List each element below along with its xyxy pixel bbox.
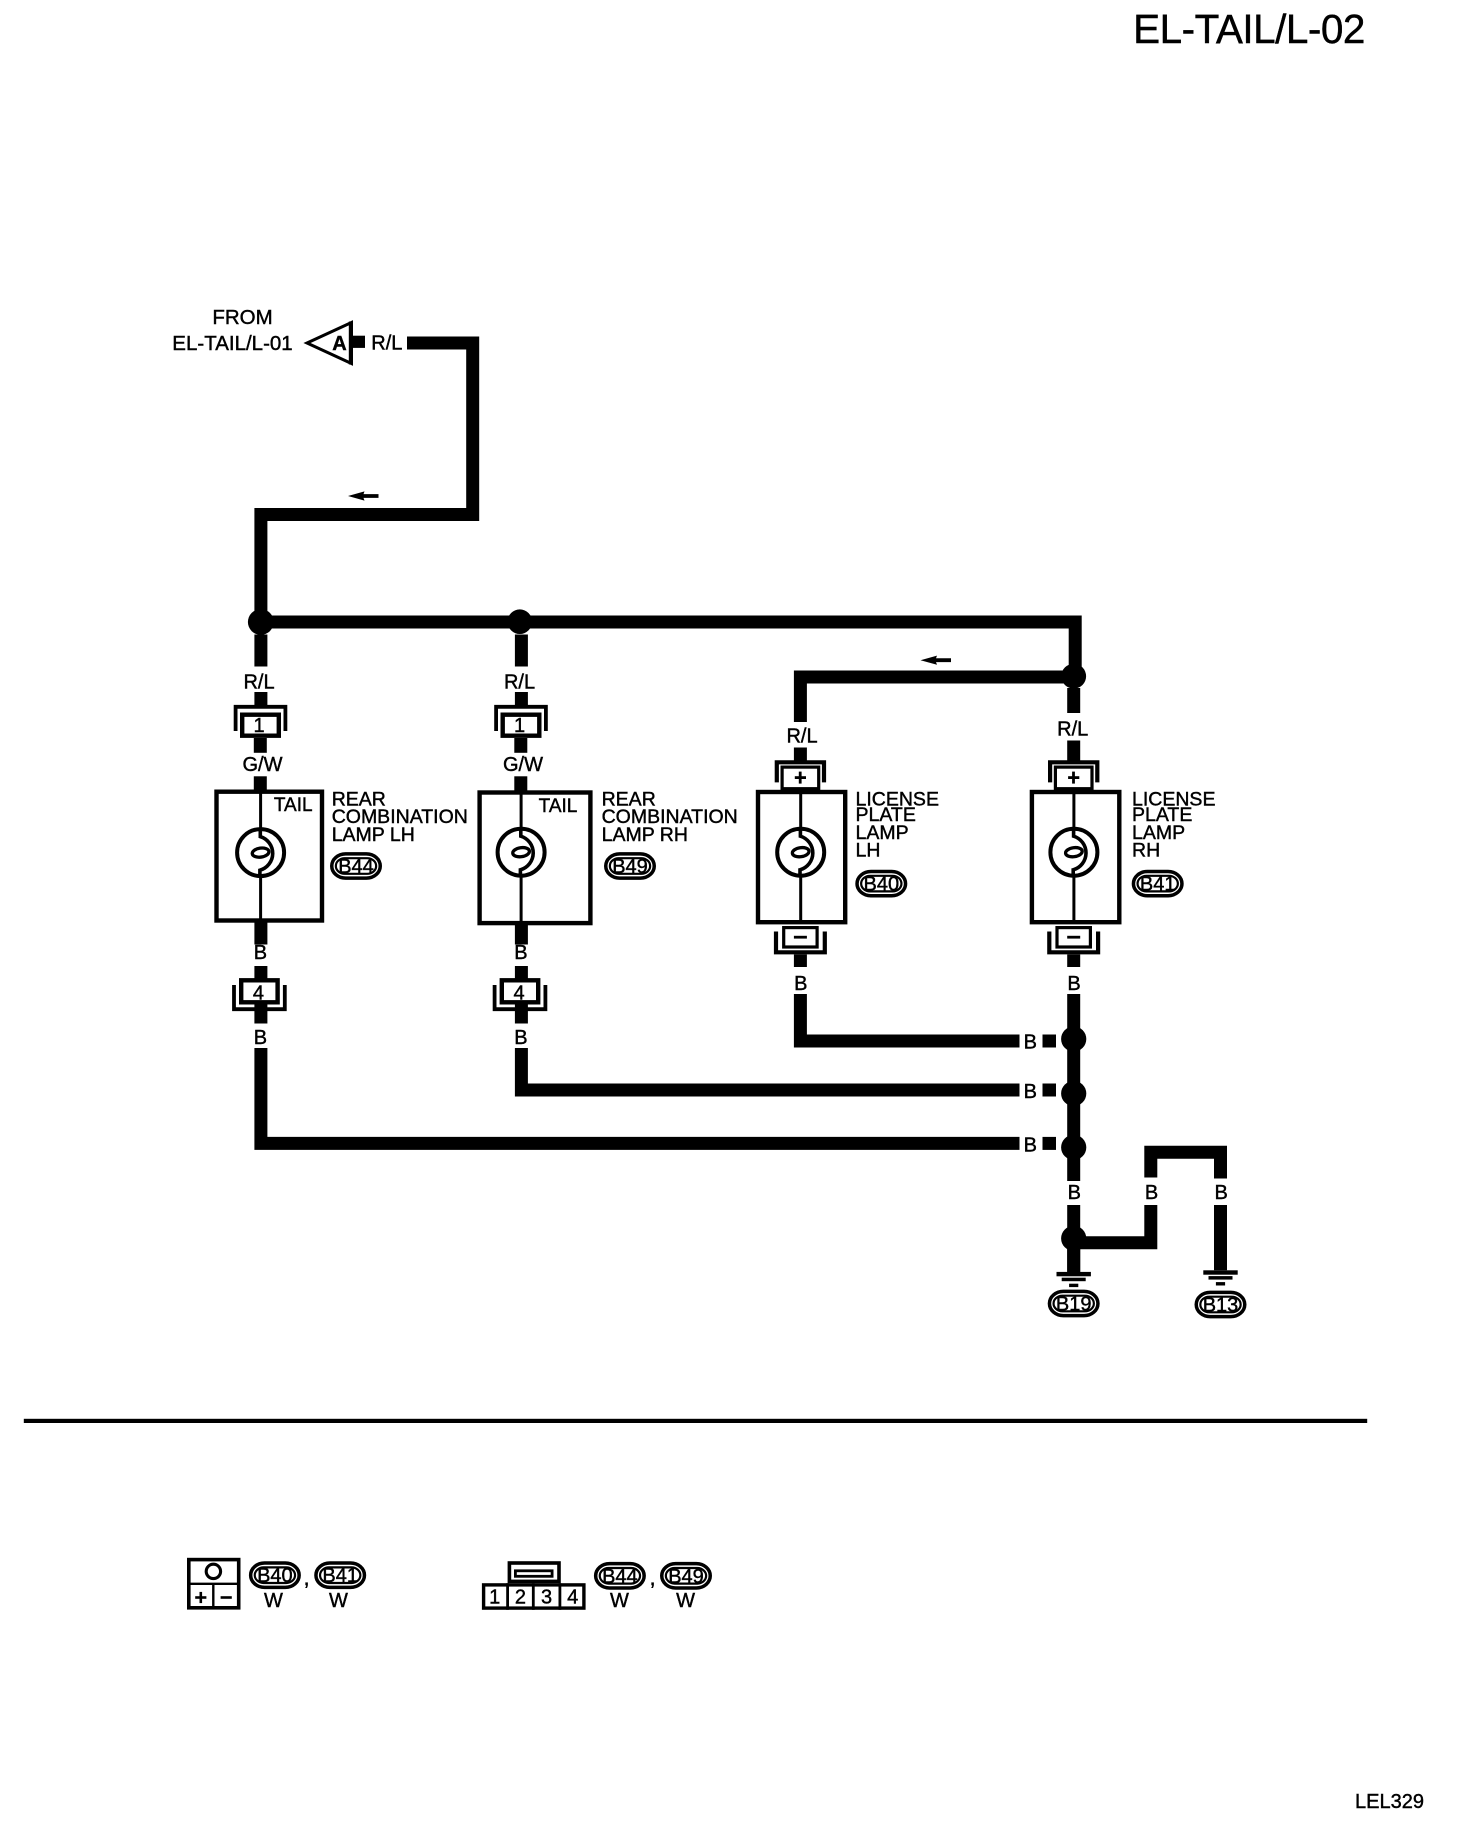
- legend ref B49: [662, 1564, 711, 1588]
- svg-text:W: W: [610, 1590, 629, 1612]
- label R/L (license RH): [1057, 719, 1088, 741]
- svg-text:B13: B13: [1203, 1295, 1239, 1317]
- legend ref B40: [251, 1563, 300, 1587]
- svg-text:B: B: [1024, 1032, 1037, 1054]
- wire stub at triangle A: [353, 336, 365, 348]
- figure code LEL329: [1355, 1791, 1424, 1813]
- bulb (license plate lamp LH): [777, 829, 824, 876]
- wire connector to G/W label (RH tail): [514, 738, 527, 753]
- legend comma 1: [303, 1565, 309, 1590]
- svg-text:TAIL: TAIL: [539, 796, 578, 817]
- wire RH tail ground run: [521, 1048, 1019, 1090]
- legend label W (B41): [329, 1590, 348, 1612]
- label LICENSE PLATE LAMP LH: [856, 788, 939, 861]
- svg-text:R/L: R/L: [371, 333, 402, 355]
- svg-text:B: B: [1024, 1081, 1037, 1103]
- junction node ground bus 4: [1061, 1226, 1086, 1251]
- connector ref B49: [606, 854, 655, 878]
- arrow on license feed wire: [921, 656, 952, 665]
- svg-text:RH: RH: [1132, 839, 1160, 861]
- label B (bridge left): [1145, 1182, 1158, 1204]
- wire lamp to B label (RH tail): [515, 923, 528, 945]
- wire connector 4 down (RH tail): [515, 1005, 528, 1024]
- svg-text:EL-TAIL/L-02: EL-TAIL/L-02: [1133, 6, 1365, 52]
- svg-text:R/L: R/L: [1057, 719, 1088, 741]
- wire B label to connector 4 (RH tail): [515, 966, 528, 980]
- label B (ground bus): [1068, 1182, 1081, 1204]
- svg-text:TAIL: TAIL: [274, 795, 313, 816]
- label B (license LH): [794, 973, 807, 995]
- wire node to R/L label (RH tail): [515, 635, 528, 667]
- wire node to B19 ground: [1067, 1238, 1080, 1272]
- wire R/L to connector + (license LH): [794, 748, 807, 761]
- legend label W (B44): [610, 1590, 629, 1612]
- junction node bus / RH tail feed: [508, 609, 533, 634]
- legend connector face (rear combination lamps): [484, 1563, 584, 1610]
- wire license RH to node: [1067, 994, 1080, 1039]
- svg-text:B: B: [254, 942, 267, 964]
- svg-text:G/W: G/W: [243, 754, 283, 776]
- label B (RH tail lower): [514, 1027, 527, 1049]
- wire bridge over to B13: [1151, 1152, 1221, 1178]
- connector B49 pin 1: [496, 707, 546, 737]
- wire G/W to lamp (RH tail): [514, 776, 527, 792]
- legend ref B44: [596, 1564, 645, 1588]
- label B (LH tail lower): [254, 1027, 267, 1049]
- label G/W (LH tail): [243, 754, 283, 776]
- label LICENSE PLATE LAMP RH: [1132, 788, 1215, 861]
- label B (bridge right): [1215, 1182, 1228, 1204]
- wire lamp to B label (LH tail): [254, 921, 267, 945]
- svg-text:LH: LH: [856, 839, 881, 861]
- svg-text:4: 4: [567, 1587, 578, 1609]
- junction node bus / LH tail feed: [248, 609, 274, 635]
- label B (LH tail upper): [254, 942, 267, 964]
- svg-text:LEL329: LEL329: [1355, 1791, 1424, 1813]
- svg-text:B49: B49: [612, 856, 648, 878]
- rear combination lamp LH box: [217, 790, 323, 923]
- label FROM EL-TAIL/L-01: [172, 306, 292, 355]
- wire R/L feed from A: [261, 343, 473, 624]
- svg-text:B19: B19: [1056, 1294, 1092, 1316]
- ground symbol B19: [1057, 1272, 1091, 1287]
- svg-text:,: ,: [649, 1565, 655, 1590]
- svg-text:,: ,: [303, 1565, 309, 1590]
- svg-text:R/L: R/L: [504, 672, 535, 694]
- wire segment square (LH tail): [1043, 1137, 1057, 1150]
- connector B44 pin 1: [236, 707, 286, 737]
- label B (license LH at junction): [1024, 1032, 1037, 1054]
- svg-text:B: B: [1068, 1182, 1081, 1204]
- connector B44 pin 4: [234, 980, 285, 1009]
- legend ref B41: [316, 1563, 365, 1587]
- wire ground bus verticals: [1067, 1039, 1080, 1272]
- label REAR COMBINATION LAMP LH: [332, 788, 468, 846]
- svg-text:B: B: [254, 1027, 267, 1049]
- svg-text:W: W: [264, 1590, 283, 1612]
- sheet title EL-TAIL/L-02: [1133, 6, 1365, 52]
- wire license lamp feed: [800, 677, 1067, 722]
- svg-text:B: B: [1067, 973, 1080, 995]
- wire LH tail ground run: [261, 1048, 1020, 1143]
- svg-text:1: 1: [514, 715, 525, 737]
- svg-text:B40: B40: [257, 1565, 293, 1587]
- ground ref B13: [1196, 1292, 1245, 1316]
- wire bridge right leg to ground: [1214, 1205, 1227, 1270]
- bulb (rear combination lamp LH): [237, 829, 284, 876]
- wire license LH ground run: [800, 994, 1019, 1041]
- svg-text:B: B: [1215, 1182, 1228, 1204]
- label R/L (feed from A): [371, 333, 402, 355]
- wire lamp to B label (license LH): [794, 955, 807, 968]
- label R/L (LH tail): [243, 672, 274, 694]
- label B (RH tail at junction): [1024, 1081, 1037, 1103]
- wire node to R/L label (LH tail): [254, 635, 267, 667]
- connector B49 pin 4: [495, 980, 546, 1009]
- bulb (license plate lamp RH): [1050, 829, 1097, 876]
- svg-text:3: 3: [541, 1587, 552, 1609]
- wire R/L to connector 1 (RH tail): [515, 692, 528, 706]
- label B (LH tail at junction): [1024, 1134, 1037, 1156]
- connector - (license LH): [776, 928, 825, 953]
- svg-text:EL-TAIL/L-01: EL-TAIL/L-01: [172, 332, 292, 355]
- bus wire R/L: [261, 622, 1075, 676]
- legend connector face (license plate lamps): [188, 1560, 240, 1609]
- svg-text:B40: B40: [864, 874, 900, 896]
- svg-text:4: 4: [253, 983, 264, 1005]
- junction node ground bus 1: [1061, 1026, 1086, 1051]
- svg-text:B: B: [514, 942, 527, 964]
- svg-text:R/L: R/L: [786, 726, 817, 748]
- svg-text:R/L: R/L: [243, 672, 274, 694]
- junction node ground bus 2: [1061, 1081, 1086, 1106]
- label B (RH tail upper): [514, 942, 527, 964]
- svg-text:2: 2: [515, 1587, 526, 1609]
- label B (license RH): [1067, 973, 1080, 995]
- svg-text:G/W: G/W: [503, 754, 543, 776]
- license plate lamp LH box: [758, 790, 845, 924]
- svg-text:B: B: [1145, 1182, 1158, 1204]
- junction node ground bus 3: [1061, 1135, 1086, 1160]
- svg-text:1: 1: [489, 1587, 500, 1609]
- svg-text:W: W: [329, 1590, 348, 1612]
- svg-text:B: B: [794, 973, 807, 995]
- legend label W (B40): [264, 1590, 283, 1612]
- license plate lamp RH box: [1032, 790, 1119, 924]
- wire G/W to lamp (LH tail): [254, 776, 267, 792]
- wire B label to connector 4 (LH tail): [254, 966, 267, 980]
- svg-text:A: A: [332, 333, 346, 355]
- connector + (license LH): [777, 762, 824, 788]
- label R/L (license LH): [786, 726, 817, 748]
- legend label W (B49): [676, 1590, 695, 1612]
- svg-text:LAMP RH: LAMP RH: [602, 824, 688, 846]
- bulb (rear combination lamp RH): [498, 829, 545, 876]
- rear combination lamp RH box: [480, 790, 591, 925]
- svg-text:B41: B41: [322, 1565, 358, 1587]
- svg-text:B41: B41: [1140, 874, 1176, 896]
- connector ref B41: [1133, 871, 1182, 895]
- wire segment square (license LH): [1043, 1035, 1057, 1048]
- arrow on feed wire: [348, 491, 379, 500]
- svg-text:FROM: FROM: [212, 306, 272, 329]
- legend comma 2: [649, 1565, 655, 1590]
- svg-text:W: W: [676, 1590, 695, 1612]
- wire connector 4 down (LH tail): [254, 1005, 267, 1024]
- svg-text:4: 4: [513, 983, 524, 1005]
- ground symbol B13: [1203, 1270, 1237, 1285]
- svg-text:B49: B49: [668, 1566, 704, 1588]
- connector ref B44: [332, 854, 381, 878]
- label REAR COMBINATION LAMP RH: [602, 788, 738, 846]
- wire lamp to B label (license RH): [1067, 955, 1080, 968]
- svg-text:B44: B44: [602, 1566, 638, 1588]
- wire connector to G/W label (LH tail): [254, 738, 267, 753]
- svg-text:B: B: [514, 1027, 527, 1049]
- wire node to R/L label (license RH): [1067, 688, 1080, 713]
- wire segment square (RH tail): [1043, 1084, 1057, 1097]
- connector + (license RH): [1050, 762, 1097, 788]
- svg-text:B: B: [1024, 1134, 1037, 1156]
- wire R/L to connector 1 (LH tail): [254, 692, 267, 706]
- label R/L (RH tail): [504, 672, 535, 694]
- svg-text:1: 1: [253, 715, 264, 737]
- label G/W (RH tail): [503, 754, 543, 776]
- wire R/L to connector + (license RH): [1067, 741, 1080, 761]
- ground ref B19: [1049, 1291, 1098, 1315]
- junction node license feed: [1061, 664, 1086, 689]
- svg-text:B44: B44: [338, 856, 374, 878]
- connector ref B40: [857, 871, 906, 895]
- connector - (license RH): [1049, 928, 1098, 953]
- wire bridge left leg to node: [1080, 1205, 1151, 1243]
- separator line: [24, 1419, 1367, 1423]
- svg-text:LAMP LH: LAMP LH: [332, 824, 415, 846]
- page connector triangle A: [307, 322, 352, 365]
